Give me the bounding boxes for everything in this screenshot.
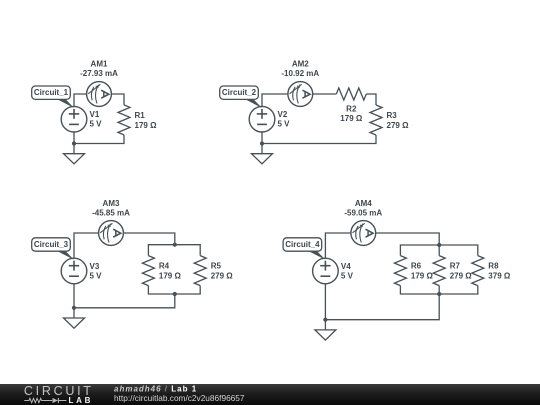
svg-text:179 Ω: 179 Ω [340,114,363,123]
svg-text:AM1: AM1 [91,60,108,69]
svg-text:R6: R6 [411,262,422,271]
svg-text:R7: R7 [450,262,461,271]
svg-text:V2: V2 [278,110,288,119]
svg-text:V3: V3 [90,262,100,271]
svg-text:R1: R1 [135,111,146,120]
svg-text:279 Ω: 279 Ω [387,121,410,130]
svg-text:R2: R2 [346,104,357,113]
svg-text:-27.93 mA: -27.93 mA [80,69,118,78]
svg-text:5 V: 5 V [90,120,103,129]
svg-text:LAB: LAB [69,396,94,405]
svg-text:-59.05 mA: -59.05 mA [344,208,382,217]
svg-text:179 Ω: 179 Ω [159,272,182,281]
svg-text:R4: R4 [159,262,170,271]
svg-text:5 V: 5 V [90,272,103,281]
svg-text:V4: V4 [341,262,351,271]
svg-text:Circuit_3: Circuit_3 [34,240,69,249]
svg-text:179 Ω: 179 Ω [135,121,158,130]
svg-text:379 Ω: 379 Ω [488,272,511,281]
svg-text:R5: R5 [211,262,222,271]
svg-text:Circuit_4: Circuit_4 [285,240,320,249]
svg-text:R8: R8 [488,262,499,271]
svg-text:Circuit_1: Circuit_1 [34,88,69,97]
svg-text:279 Ω: 279 Ω [450,272,473,281]
svg-text:V1: V1 [90,110,100,119]
svg-text:http://circuitlab.com/c2v2u86f: http://circuitlab.com/c2v2u86f96657 [114,393,245,403]
svg-text:-45.85 mA: -45.85 mA [92,208,130,217]
svg-text:5 V: 5 V [278,120,291,129]
svg-text:R3: R3 [387,111,398,120]
svg-text:AM2: AM2 [292,60,309,69]
svg-text:AM3: AM3 [103,199,120,208]
svg-text:279 Ω: 279 Ω [211,272,234,281]
svg-text:AM4: AM4 [355,199,372,208]
svg-text:-10.92 mA: -10.92 mA [281,69,319,78]
svg-text:Circuit_2: Circuit_2 [222,88,257,97]
svg-text:5 V: 5 V [341,272,354,281]
svg-text:179 Ω: 179 Ω [411,272,434,281]
